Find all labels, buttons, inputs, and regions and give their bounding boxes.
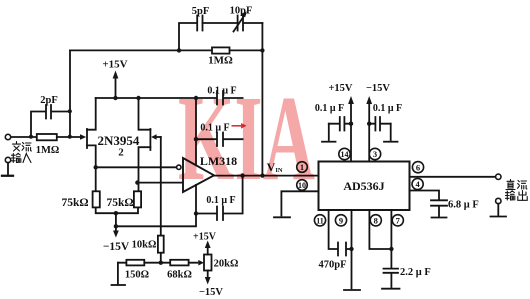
- op-amp U1 LM318: [96, 154, 237, 192]
- power +15V (AD536J pin14): [328, 83, 353, 162]
- IC U2 AD536J: [319, 162, 410, 211]
- svg-text:0.1 μ F: 0.1 μ F: [315, 103, 344, 114]
- node: right JFET source junction: [135, 180, 139, 184]
- svg-text:6: 6: [416, 162, 420, 172]
- resistor 10k: [132, 236, 164, 253]
- wire: AC input line: [11, 136, 80, 138]
- label: DC output (hand-drawn CJK 直流 / 输出): [506, 180, 528, 201]
- pin 4 circle: [412, 178, 423, 189]
- node: feedback left junction: [177, 48, 181, 52]
- svg-text:3: 3: [373, 149, 377, 159]
- capacitor 2pF: [31, 95, 70, 137]
- svg-text:10kΩ: 10kΩ: [132, 240, 157, 251]
- resistor 68k: [167, 260, 192, 281]
- pin 1 circle: [297, 162, 308, 173]
- wire: bottom node line: [118, 261, 198, 265]
- svg-text:8: 8: [374, 216, 378, 226]
- svg-text:68kΩ: 68kΩ: [167, 270, 192, 281]
- wire: -15V rail to op-amp V-: [114, 214, 196, 229]
- capacitor 6.8uF: [431, 200, 479, 217]
- wire: op-amp output to AD536J pin1: [214, 173, 319, 177]
- terminal: input upper: [5, 134, 10, 139]
- svg-text:11: 11: [316, 216, 324, 225]
- svg-text:7: 7: [396, 216, 401, 226]
- capacitor 10pF (variable): [230, 6, 253, 32]
- svg-text:AD536J: AD536J: [343, 179, 384, 193]
- ground (pin3 bypass): [384, 124, 398, 142]
- transistor Q1 2N3954 dual JFET: [80, 98, 161, 191]
- svg-text:+15V: +15V: [102, 59, 127, 71]
- pin 14 circle: [339, 148, 350, 159]
- wire: 75k bottoms tie: [96, 207, 138, 215]
- wire: gate2 feedback line down to 10k: [160, 137, 162, 263]
- terminal: output upper: [496, 174, 501, 179]
- svg-text:75kΩ: 75kΩ: [106, 197, 133, 209]
- pin 11 circle: [314, 215, 325, 226]
- svg-text:−15V: −15V: [199, 287, 223, 298]
- label: AC input (hand-drawn CJK 交流 / 输入): [12, 142, 32, 163]
- wire: pin6 output: [410, 176, 496, 178]
- ground (2.2uF): [382, 288, 400, 290]
- pin 8 circle: [370, 215, 381, 226]
- potentiometer 20k: [193, 232, 238, 299]
- svg-text:75kΩ: 75kΩ: [61, 197, 88, 209]
- svg-text:20kΩ: 20kΩ: [214, 259, 239, 270]
- wire: pin8 lead: [369, 210, 393, 251]
- node junctions on input line: [29, 109, 72, 139]
- svg-text:9: 9: [339, 216, 343, 226]
- svg-text:5pF: 5pF: [192, 6, 210, 17]
- power -15V (AD536J pin3): [366, 83, 390, 162]
- svg-text:0.1 μ F: 0.1 μ F: [373, 103, 402, 114]
- svg-text:14: 14: [341, 150, 349, 159]
- resistor 1M (feedback): [208, 47, 233, 66]
- wire: pin7 lead: [390, 210, 392, 267]
- power -15V (75k node): [103, 213, 130, 253]
- capacitor 5pF: [192, 6, 210, 31]
- svg-text:1MΩ: 1MΩ: [36, 145, 60, 156]
- svg-text:6.8 μ F: 6.8 μ F: [448, 200, 479, 211]
- node: right JFET drain on rail: [136, 96, 140, 100]
- wire: feedback main horizontal: [70, 49, 262, 51]
- node: left JFET source junction: [94, 165, 98, 169]
- ground (input): [2, 163, 13, 176]
- resistor 150: [125, 260, 149, 281]
- label Vin: [267, 160, 283, 174]
- pin 7 circle: [392, 215, 403, 226]
- svg-text:4: 4: [415, 179, 420, 189]
- wire: V- pin line of op-amp: [195, 185, 197, 214]
- ground (6.8uF): [432, 217, 447, 219]
- capacitor 0.1uF (pin3 bypass): [369, 103, 402, 131]
- svg-text:150Ω: 150Ω: [125, 270, 149, 281]
- capacitor 0.1uF (mid bypass): [194, 123, 243, 147]
- svg-text:−15V: −15V: [103, 241, 130, 253]
- terminal: input lower: [5, 157, 10, 162]
- svg-text:2pF: 2pF: [40, 95, 58, 106]
- capacitor 470pF: [318, 243, 353, 271]
- wire: pin9 to ground: [344, 210, 360, 290]
- capacitor 2.2uF: [384, 267, 431, 287]
- svg-text:+15V: +15V: [193, 232, 217, 243]
- wire: +15V rail over JFETs: [96, 97, 243, 99]
- wire: feedback left vertical: [69, 50, 71, 136]
- watermark KIA: [178, 71, 315, 206]
- wire: pin11 lead: [329, 210, 337, 249]
- svg-text:470pF: 470pF: [318, 260, 346, 271]
- svg-text:10pF: 10pF: [230, 6, 253, 17]
- capacitor 0.1uF (top bypass): [207, 86, 236, 105]
- capacitor 0.1uF (pin14 bypass): [315, 103, 351, 131]
- ground (pin14 bypass): [322, 124, 336, 142]
- power +15V (JFET stage): [102, 59, 127, 101]
- resistor 75k (left): [61, 191, 99, 209]
- pin 9 circle: [335, 215, 346, 226]
- wire: V+ pin line of op-amp: [194, 96, 198, 166]
- svg-text:KIA: KIA: [178, 71, 315, 206]
- capacitor 0.1uF (bottom bypass): [194, 176, 243, 220]
- wire: feedback right vertical to Vin node: [261, 23, 263, 176]
- svg-text:2: 2: [118, 147, 124, 159]
- red annotation arrow: [232, 123, 247, 129]
- node: feedback right junction: [260, 48, 264, 52]
- wire: feedback top branch: [179, 23, 262, 50]
- ground (output): [491, 204, 507, 217]
- wire: pin4 to 6.8uF: [410, 191, 440, 200]
- pin 6 circle: [412, 162, 423, 173]
- resistor 1M (input): [36, 134, 60, 156]
- svg-text:+15V: +15V: [328, 83, 352, 94]
- resistor 75k (right): [106, 191, 141, 209]
- pin 10 circle: [297, 180, 308, 191]
- pin 3 circle: [369, 148, 380, 159]
- ground (150 ohm): [112, 263, 126, 285]
- svg-text:1MΩ: 1MΩ: [208, 55, 233, 67]
- svg-text:2.2 μ F: 2.2 μ F: [400, 267, 431, 278]
- svg-text:−15V: −15V: [366, 83, 390, 94]
- terminal: output lower: [496, 198, 501, 203]
- wire: pin10 to ground: [274, 191, 319, 217]
